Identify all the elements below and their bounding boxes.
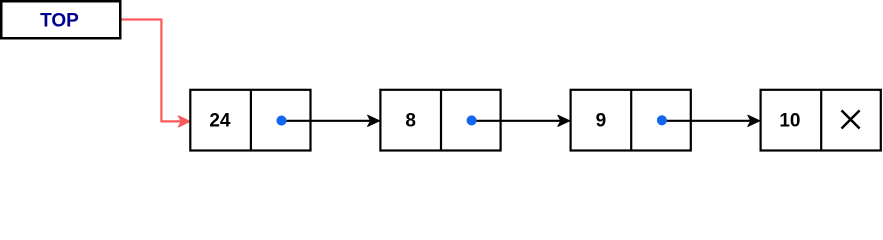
node N4 value 10 bbox=[779, 110, 800, 131]
arrow wire N3 to N4 bbox=[662, 115, 760, 126]
arrow wire N2 to N3 bbox=[472, 115, 570, 126]
node N3 pointer dot bbox=[657, 115, 667, 125]
node N1 value 24 bbox=[209, 110, 231, 131]
node N1 pointer dot bbox=[276, 116, 286, 126]
node N1 box bbox=[190, 90, 310, 151]
node N2 box bbox=[380, 90, 500, 151]
node N1 divider bbox=[250, 90, 252, 151]
node N3 divider bbox=[630, 90, 632, 151]
TOP pointer label box bbox=[1, 1, 120, 38]
node N4 box bbox=[761, 90, 881, 151]
svg-text:9: 9 bbox=[596, 110, 607, 131]
node N3 value 9 bbox=[596, 110, 607, 131]
node N2 pointer dot bbox=[467, 115, 477, 125]
svg-text:10: 10 bbox=[779, 110, 800, 131]
node N2 value 8 bbox=[405, 110, 416, 131]
arrow wire N1 to N2 bbox=[282, 115, 380, 126]
TOP label text bbox=[40, 11, 79, 32]
node N3 box bbox=[571, 90, 691, 151]
red arrow wire TOP to node N1 bbox=[122, 20, 191, 128]
svg-text:8: 8 bbox=[405, 110, 416, 131]
null terminator X mark bbox=[842, 110, 860, 128]
svg-text:24: 24 bbox=[209, 110, 231, 131]
node N2 divider bbox=[440, 90, 442, 151]
node N4 divider bbox=[820, 90, 822, 151]
svg-text:TOP: TOP bbox=[40, 11, 79, 32]
